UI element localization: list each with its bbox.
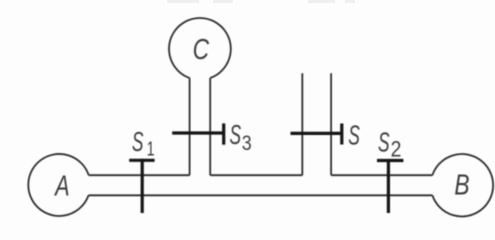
svg-text:1: 1 [147, 137, 155, 160]
svg-text:2: 2 [391, 137, 402, 161]
wire upper bus segment feeder stub to B [331, 174, 432, 176]
switch S cap bar [340, 124, 343, 145]
wire C-neck left line [189, 78, 191, 175]
switch S2 cap bar [377, 159, 403, 162]
generator C circle [169, 18, 231, 78]
svg-text:S: S [348, 119, 360, 150]
switch S2 stem [387, 159, 390, 213]
switch S1 stem [141, 159, 144, 213]
generator A circle [28, 154, 88, 216]
wire feeder stub right line [330, 73, 332, 175]
switch S3 bar [172, 131, 224, 134]
svg-text:3: 3 [242, 131, 252, 155]
svg-text:C: C [193, 35, 210, 66]
svg-text:S: S [132, 126, 144, 157]
switch S3 cap bar [222, 123, 225, 144]
switch S bar [291, 132, 342, 135]
wire lower bus line A-B [89, 194, 433, 196]
svg-text:A: A [53, 171, 69, 203]
svg-text:S: S [378, 126, 390, 157]
svg-text:B: B [454, 170, 469, 201]
wire upper bus segment C-neck to feeder stub [210, 174, 302, 176]
generator B circle [432, 154, 493, 216]
wire upper bus segment A to C-neck [89, 174, 190, 176]
svg-text:S: S [230, 119, 242, 150]
wire feeder stub left line [301, 73, 303, 175]
wire C-neck right line [209, 78, 211, 175]
switch S1 cap bar [129, 159, 154, 162]
